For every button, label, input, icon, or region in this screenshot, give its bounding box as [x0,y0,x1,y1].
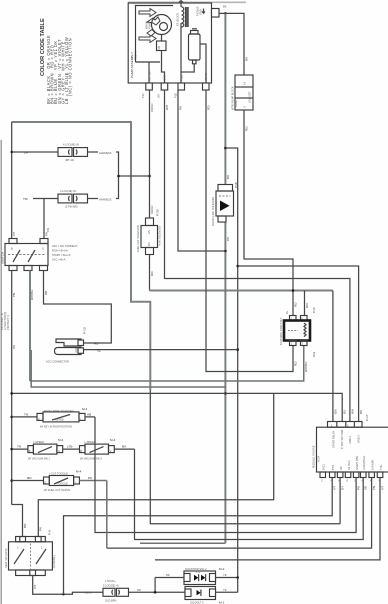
svg-text:HARNESS: HARNESS [99,151,112,155]
svg-text:M-4: M-4 [110,438,116,442]
svg-text:4 LOC(4E) IN: 4 LOC(4E) IN [63,143,79,147]
svg-text:MAG: MAG [163,75,167,81]
svg-text:P1D: P1D [174,93,178,98]
ignition coil L1 [182,7,184,27]
svg-text:M2: M2 [157,45,161,49]
svg-text:OFF = NO CONNECT: OFF = NO CONNECT [52,244,78,248]
color code table (rotated) [40,18,73,104]
svg-text:L-SPEED: L-SPEED [33,440,44,444]
svg-text:P-9: P-9 [48,530,52,535]
svg-text:START = B+I+S: START = B+I+S [52,253,71,257]
diode box M-1 bottom [185,587,225,604]
svg-text:OP: OP [339,466,343,470]
svg-text:C: C [321,478,323,482]
svg-text:PUMP ASSEMBLY: PUMP ASSEMBLY [130,52,134,78]
svg-text:OIL/VOLT 2: OIL/VOLT 2 [190,600,204,604]
svg-text:GN: GN [333,409,337,414]
svg-text:GY: GY [341,486,345,490]
svg-text:B: B [80,449,82,453]
svg-text:RD: RD [166,573,170,577]
node w1/harness 176 [148,175,151,178]
svg-text:M-1: M-1 [219,600,225,604]
svg-text:BN: BN [147,242,151,246]
wire housing to tab1 [148,62,150,83]
pump bottom tab 4 [203,83,210,90]
seat switch S2 [4,530,56,576]
svg-text:2: 2 [17,546,19,550]
node heavy/branch 148 [224,147,227,150]
wire left bus S-bend to seat BN [12,505,23,537]
pump assembly U1 outer box [128,3,211,83]
svg-text:LINE DET: LINE DET [248,91,252,103]
wire YL acc to 237 vertical [84,349,238,351]
svg-text:V: V [58,449,60,453]
switch D (fuel cut toggle) [12,470,107,493]
svg-text:Y B+: Y B+ [379,464,383,470]
motor terminal box M2 [157,41,167,51]
svg-text:RD: RD [94,342,99,346]
svg-text:M-2: M-2 [219,567,225,571]
svg-text:START RELAY: START RELAY [332,430,336,448]
svg-text:RD/GN: RD/GN [150,206,154,214]
svg-text:1–2: 1–2 [196,570,201,574]
switch B (hi speed) [12,438,80,461]
wire motor to MAG tab [162,51,165,84]
LA heavy route: left bus to module GY [12,122,151,390]
svg-text:RD: RD [137,588,141,592]
svg-text:P-17: P-17 [365,414,369,421]
wire harness row2 to ignition [43,199,45,239]
svg-text:IN W SOLENOID: IN W SOLENOID [158,226,162,246]
starter lead to tab4 [200,44,206,83]
wire fuse to relay pin2 (RD) [244,110,293,316]
svg-text:VT: VT [333,486,337,490]
svg-text:ACC CONNECTOR: ACC CONNECTOR [46,360,69,364]
svg-text:K: K [338,478,340,482]
fuse F1 [231,75,254,110]
svg-text:OLD BRN: OLD BRN [105,599,117,603]
svg-text:PK: PK [88,476,93,480]
svg-text:PK: PK [226,236,230,241]
svg-text:LTB: LTB [67,445,72,449]
wires bottom box [216,591,238,593]
node heavy/TN 393.4 [224,392,227,395]
svg-text:YE: YE [223,588,227,592]
svg-text:WH: WH [350,409,354,414]
wire w2 pump MAG to module WH [165,90,350,422]
svg-text:BK: BK [359,409,363,414]
svg-text:C: C [38,417,40,421]
svg-text:WH: WH [165,105,169,110]
svg-text:P TDC SW TDW: P TDC SW TDW [340,429,344,449]
node heavy/w3 251 [224,250,227,253]
svg-text:BA: BA [122,445,127,449]
svg-text:BN: BN [23,524,27,528]
node heavy/bus 290.5 [224,289,227,292]
svg-text:PK: PK [39,526,43,531]
svg-text:SOL/STOW SOL 2: SOL/STOW SOL 2 [185,567,207,571]
wires top box [155,577,184,579]
svg-text:KEYED: KEYED [55,418,64,422]
svg-text:TN: TN [24,412,28,416]
svg-text:VT: VT [381,486,385,490]
svg-text:P10: P10 [141,93,145,98]
pickup gnd connector tab [212,9,220,18]
svg-text:BK: BK [226,174,230,179]
svg-text:P-O: P-O [312,307,316,313]
svg-text:VMD 2: VMD 2 [348,436,352,444]
svg-text:YE: YE [223,573,227,577]
svg-text:SWITCH: SWITCH [1,252,5,264]
svg-text:M-4: M-4 [82,407,88,411]
svg-text:PTO: PTO [331,465,335,470]
svg-text:RD: RD [294,302,298,307]
nozzle arrow 2 [147,17,160,25]
solenoid box M-2 top [184,567,225,585]
pump bottom tab 1 P10 [146,83,153,90]
svg-text:DB: DB [44,291,48,295]
B+ bus heavy [150,290,333,292]
svg-text:AB: AB [87,412,91,416]
svg-text:SEAT SW (OPR): SEAT SW (OPR) [4,548,8,568]
svg-text:(NC): (NC) [322,464,326,470]
svg-text:VT: VT [33,585,37,589]
svg-text:W/ VACUUM SW 1: W/ VACUUM SW 1 [28,457,51,461]
svg-text:ACC = B+A: ACC = B+A [52,258,66,262]
motor lead [161,35,163,42]
pickup gnd symbol [202,9,205,14]
svg-text:A NEUTRAL: A NEUTRAL [362,455,366,470]
wire pickup-gnd to fuse [219,13,244,75]
svg-text:(NORMAL): (NORMAL) [52,555,56,568]
svg-text:GN: GN [305,303,309,308]
inline connector bottom [84,579,185,603]
bus4 module VE to switch C [135,449,364,539]
svg-text:M-4: M-4 [76,470,82,474]
svg-text:RD: RD [150,271,154,276]
svg-text:WH/BU: WH/BU [304,362,308,372]
svg-text:PK: PK [178,105,182,110]
heavy vertical BK wire [224,13,226,184]
svg-text:RD/BK: RD/BK [84,591,92,595]
bus3 module PK to switch A [95,417,356,533]
pump bottom tab 3 [178,83,185,90]
svg-text:DOOR AJAR SOLENOID: DOOR AJAR SOLENOID [211,197,215,226]
svg-text:PROTECT 4: PROTECT 4 [6,315,10,330]
svg-text:GND: GND [74,347,78,353]
svg-text:RD/GN: RD/GN [150,104,154,112]
svg-text:S: S [42,247,44,251]
svg-text:ECM MAIN START RLY: ECM MAIN START RLY [279,317,283,345]
svg-text:WH/BU: WH/BU [30,290,34,300]
svg-text:Y: Y [243,106,247,108]
svg-text:RUN = B+I+A: RUN = B+I+A [52,249,68,253]
pump inner housing [136,6,174,63]
wire TN bus (ignition down) [11,271,13,505]
svg-text:RD: RD [27,476,32,480]
svg-text:PK: PK [12,344,16,349]
reservoir/canister C1 [189,34,201,60]
wire ignition S to acc comb pin1 [44,271,112,344]
wire branch to 237-vertical [225,148,237,578]
svg-text:B+: B+ [285,310,289,314]
svg-text:GN: GN [147,230,151,234]
svg-text:HARNESS: HARNESS [99,197,112,201]
svg-text:FUSE: FUSE [234,100,238,107]
svg-text:ACM: ACM [317,456,321,462]
node RD/bus [292,289,295,292]
wire w3 pump FUEL [178,90,225,251]
wire WH/BU ignition to relay pin3 [29,271,31,382]
wire 266 branch to module BK [238,266,359,422]
svg-text:P41: P41 [46,227,50,232]
wire w1 pump RLY-OUT down [149,90,151,218]
svg-text:C: C [44,481,46,485]
relay K1 (P-11) [279,307,316,357]
svg-text:RD: RD [206,105,210,110]
coil top lead + tick [180,1,183,7]
svg-text:PK: PK [357,485,361,490]
svg-text:TM: TM [23,197,28,201]
nozzle arrow 3 [139,35,156,43]
solenoid P-18 [211,182,238,226]
module bottom pins [320,472,326,478]
module ACM box [312,414,388,482]
svg-text:1 NO(S)–: 1 NO(S)– [105,579,117,583]
svg-text:W/ KEY IN RUN POSITION: W/ KEY IN RUN POSITION [40,424,72,428]
page edge shadow [0,140,2,604]
svg-text:B: B [29,449,31,453]
harness row 2 [23,189,112,208]
svg-text:P11: P11 [312,351,316,357]
svg-text:1: 1 [41,546,43,550]
wire w4 pump START to relay pin1 [206,90,293,372]
svg-text:I-CUT TOGGLE: I-CUT TOGGLE [50,472,69,476]
svg-text:PUMP: PUMP [148,21,152,29]
svg-text:MODULE, ENGINE: MODULE, ENGINE [312,445,316,468]
svg-text:TOGGLE: TOGGLE [57,481,68,485]
svg-text:GND: GND [199,9,203,15]
svg-text:W/ VACUUM SW 2: W/ VACUUM SW 2 [80,457,103,461]
wire TN east line [12,392,274,394]
svg-text:YL: YL [97,349,101,353]
switch C (lo speed) [80,438,135,461]
svg-text:5 LOC(5E) IN: 5 LOC(5E) IN [103,583,119,587]
harness bracket join [116,152,119,199]
svg-text:(MT-10): (MT-10) [65,158,74,162]
relay pin5 tap [304,291,306,316]
svg-text:GND 2: GND 2 [357,435,361,443]
svg-text:BK: BK [245,56,249,61]
bus1 module VT [64,478,333,595]
motor M1 [152,15,172,35]
svg-text:(2 PIN BN): (2 PIN BN) [65,204,78,208]
svg-text:FUEL CUT SOLENOID: FUEL CUT SOLENOID [136,225,140,252]
wire left bus vertical upper (VT) [11,122,13,239]
svg-text:A INNER: A INNER [370,459,374,470]
svg-text:V: V [110,449,112,453]
svg-text:P-19: P-19 [83,327,87,334]
svg-text:TN: TN [12,293,16,297]
svg-text:S: S [346,478,348,482]
svg-text:S2 (NC): S2 (NC) [347,460,351,470]
bus5 module TN to switch D [107,478,372,549]
svg-text:L-SPEED: L-SPEED [85,440,96,444]
svg-text:4 LOC(4E) IN: 4 LOC(4E) IN [60,189,76,193]
svg-text:VT: VT [12,232,16,236]
svg-text:P-20: P-20 [156,209,160,216]
svg-text:BK: BK [223,5,227,9]
svg-text:(NC) = NO CONNECTION: (NC) = NO CONNECTION [68,38,73,96]
svg-text:F/L BLOCK: F/L BLOCK [176,13,180,26]
node 237/349.6 YL [236,348,239,351]
wire w1 to B+ bus [149,255,151,291]
svg-text:RD: RD [245,126,249,131]
ignition switch S1 [1,239,78,271]
nozzle arrow 1 [139,9,156,17]
harness row 1 [11,143,112,162]
svg-text:RLY OUT: RLY OUT [148,70,152,81]
canister lead [181,64,194,72]
svg-text:FUEL: FUEL [180,74,184,81]
svg-text:VE: VE [364,486,368,490]
svg-text:B: B [11,247,13,251]
svg-text:TN: TN [372,486,376,490]
svg-text:BU: BU [343,410,347,414]
svg-text:JAI: JAI [157,94,161,98]
svg-text:M-4: M-4 [58,438,64,442]
coil bottom lead to FUEL tab [180,23,182,83]
svg-text:RD: RD [294,361,298,366]
wire seat PK riser to module BU [38,393,342,536]
bus6 module VT2 [155,478,380,560]
svg-text:H: H [243,82,247,84]
nozzle arrow 4 [147,30,155,37]
svg-text:START: START [204,72,208,81]
pump bottom tab 2 [161,83,168,90]
TN bus branch dots [10,416,13,419]
node 237/266 [236,265,239,268]
acc connector P-19 comb [46,327,87,363]
switch A (radio keyed) [12,407,95,429]
svg-text:TN: TN [17,445,21,449]
svg-text:GND/Y R/W: GND/Y R/W [355,456,359,470]
fuel cut solenoid P-20 [136,218,162,255]
node pickup junction [224,12,227,15]
wire seat VT bottom to RD/BK line [33,576,103,595]
acc housing outline [31,350,226,387]
svg-text:W/ FUEL CUT IN RUN: W/ FUEL CUT IN RUN [44,488,70,492]
